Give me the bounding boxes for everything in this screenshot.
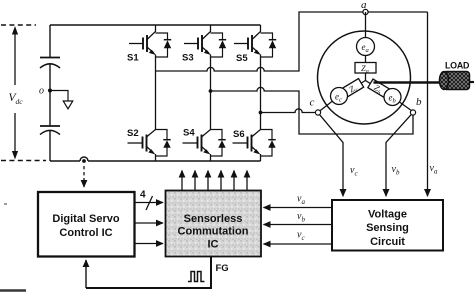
diode D4 (211, 130, 226, 157)
wire S6 emitter to DC- rail (260, 154, 262, 161)
node o (48, 89, 52, 93)
impedance Zc (341, 79, 365, 100)
ground (63, 101, 73, 109)
junction phase b (209, 89, 213, 93)
svg-text:S2: S2 (127, 128, 139, 139)
current tap bump on DC- rail (80, 157, 88, 161)
feedback vb arrow (264, 224, 333, 226)
diode D1 (156, 33, 172, 57)
scan artifact bottom-left (0, 289, 26, 292)
emf source ec (331, 88, 348, 105)
DC link left bus wire (49, 25, 51, 161)
ground wire (50, 91, 68, 102)
winding stick c (337, 81, 366, 98)
gate drive arrow 3 (207, 171, 209, 191)
control bus arrow 1 (135, 202, 163, 204)
bus slash (146, 196, 153, 210)
impedance Zb (367, 79, 391, 100)
Sensorless Commutation IC box (166, 191, 262, 257)
control bus arrow 3 (135, 243, 163, 245)
wire S2 emitter to DC- rail (155, 154, 157, 161)
Vdc measurement arrow (12, 26, 18, 160)
wire S1 emitter to phase a node (155, 55, 157, 72)
svg-text:FG: FG (216, 263, 229, 274)
svg-text:IC: IC (208, 239, 219, 251)
transistor S5 (234, 25, 261, 55)
transistor S3 (184, 25, 211, 55)
terminal b (410, 110, 415, 115)
svg-text:o: o (39, 86, 44, 97)
wire eb to terminal b (393, 97, 413, 111)
gate drive arrow 1 (181, 171, 183, 191)
svg-text:Sensorless: Sensorless (184, 213, 243, 225)
Voltage Sensing Circuit box (332, 200, 443, 251)
diode D5 (261, 33, 277, 57)
motor winding a lead (365, 12, 367, 40)
svg-text:4: 4 (140, 190, 146, 201)
feedback va arrow (264, 207, 333, 209)
diode D3 (211, 33, 227, 57)
transistor S2 (128, 71, 156, 155)
winding stick b (366, 81, 395, 99)
shaft (374, 81, 444, 83)
phase b wire with hop (211, 87, 414, 134)
impedance Za (355, 63, 376, 76)
gate drive arrow 4 (220, 171, 222, 191)
phase c wire with hop (261, 109, 316, 113)
FG feedback wire (86, 257, 211, 289)
terminal c (315, 110, 320, 115)
node a (363, 9, 368, 14)
motor stator circle (318, 31, 411, 124)
FG pulse waveform (188, 272, 205, 282)
Digital Servo Control IC box (38, 192, 135, 257)
DC- bottom rail (50, 160, 261, 162)
Vdc top dashed line (1, 24, 36, 26)
wire S3 emitter to phase b node (210, 55, 212, 92)
svg-text:c: c (310, 97, 315, 109)
phase a wire with hops (156, 12, 428, 71)
svg-text:Digital Servo: Digital Servo (52, 213, 120, 225)
svg-text:Sensing: Sensing (366, 222, 409, 234)
transistor S1 (129, 25, 156, 55)
svg-text:S1: S1 (127, 53, 139, 64)
svg-text:b: b (416, 96, 422, 108)
svg-text:Voltage: Voltage (368, 209, 407, 221)
svg-text:S5: S5 (236, 53, 248, 64)
wire ec to terminal c (319, 96, 339, 112)
diode D6 (261, 130, 276, 157)
emf source eb (384, 89, 401, 106)
svg-text:S4: S4 (183, 128, 195, 139)
diode D2 (156, 130, 171, 157)
load cylinder (439, 72, 474, 90)
wire S5 emitter to phase c node (260, 55, 262, 113)
gate drive arrow 5 (233, 171, 235, 191)
feedback vc arrow (264, 243, 333, 245)
scan speck (4, 203, 7, 205)
vb sense wire (386, 115, 411, 197)
emf source ea (357, 38, 375, 56)
gate drive arrow 2 (194, 171, 196, 191)
capacitor C1 (40, 58, 60, 69)
transistor S6 (233, 113, 261, 155)
svg-text:a: a (361, 0, 367, 11)
DC+ top rail (50, 24, 261, 26)
svg-text:LOAD: LOAD (445, 61, 470, 71)
va sense wire (427, 12, 429, 196)
Vdc bottom dashed line (1, 160, 46, 162)
svg-text:Control IC: Control IC (59, 227, 112, 239)
svg-text:Commutation: Commutation (178, 226, 249, 238)
wire S4 emitter to DC- rail (210, 154, 212, 161)
capacitor C2 (40, 126, 60, 135)
junction phase c (259, 111, 263, 115)
dashed current sense arrow to Digital Servo IC (83, 166, 85, 187)
winding stick a (365, 46, 367, 81)
svg-text:S3: S3 (182, 53, 194, 64)
gate drive arrow 6 (246, 171, 248, 191)
svg-text:S6: S6 (233, 129, 245, 140)
control bus arrow 2 (135, 222, 163, 224)
svg-text:Circuit: Circuit (370, 236, 405, 248)
transistor S4 (183, 91, 211, 155)
vc sense wire (320, 115, 343, 197)
